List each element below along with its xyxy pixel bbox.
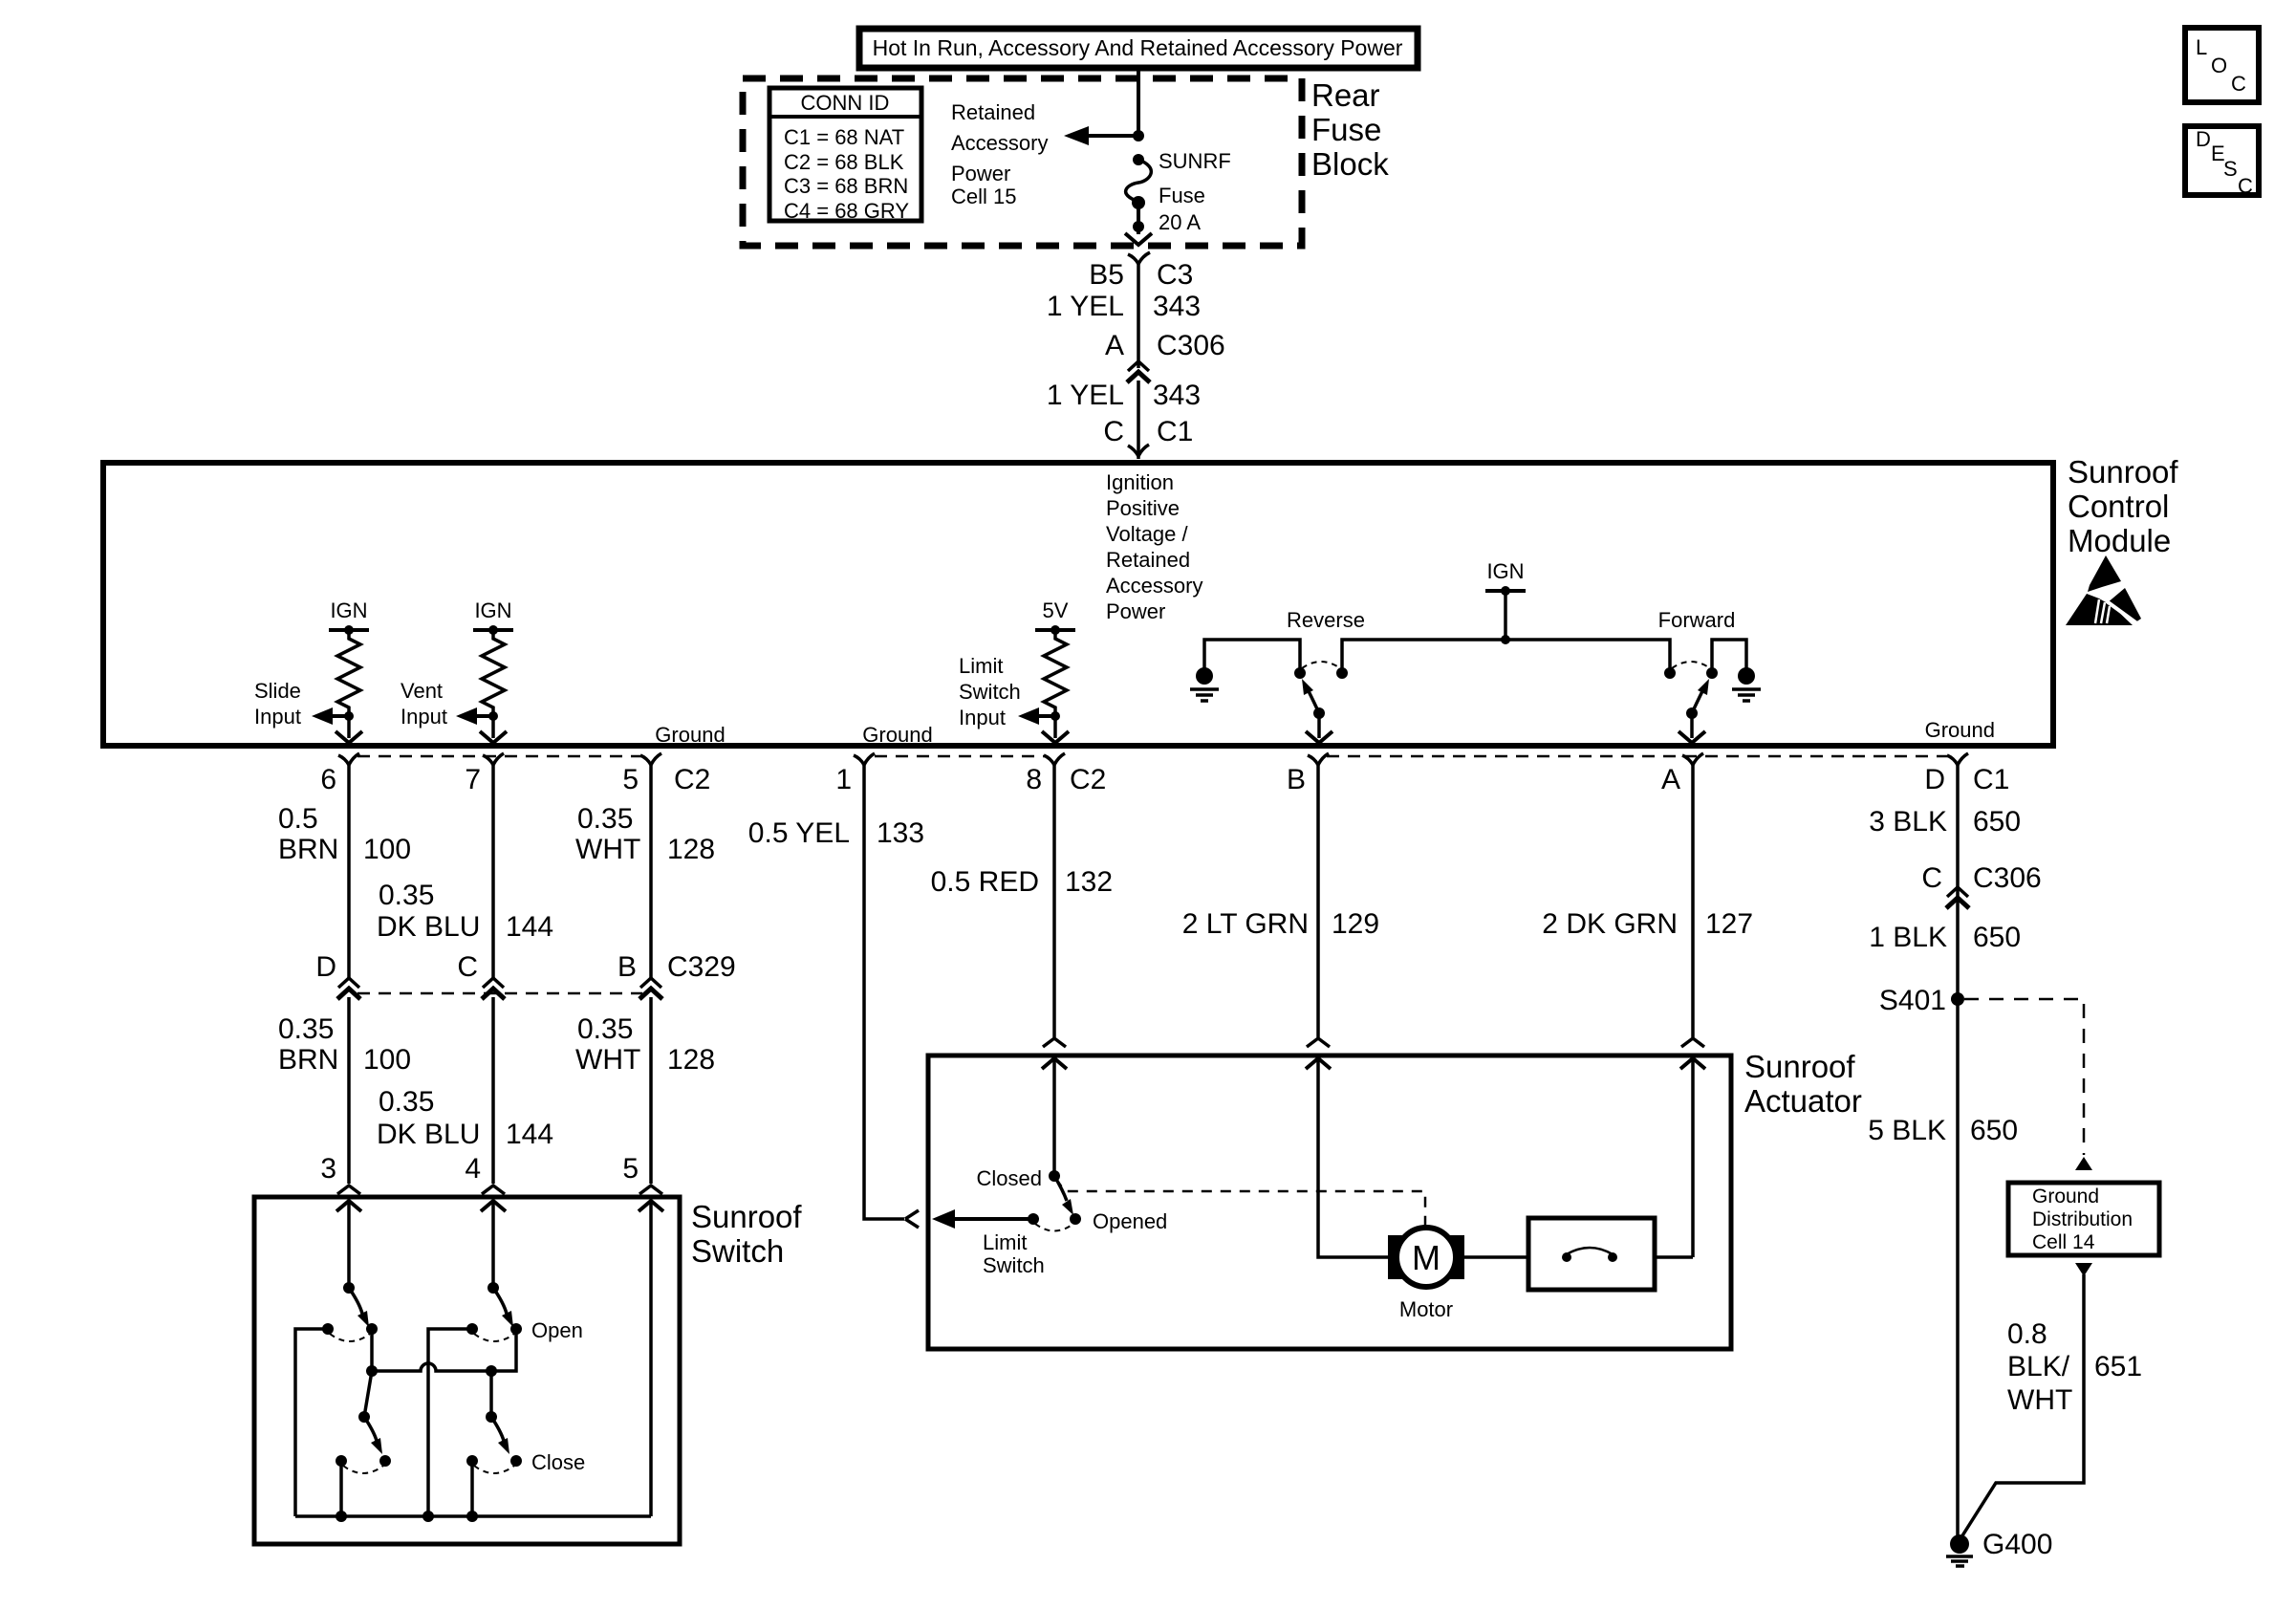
node limit switch input [1051, 711, 1060, 721]
relay bus wires [1204, 640, 1746, 669]
wire pinD down [1956, 765, 1960, 1540]
label C C1 [1103, 416, 1193, 447]
wire open-left contact down [428, 1329, 472, 1516]
pin 5 bracket [640, 753, 661, 765]
label 0.35 BRN 100 lower [278, 1013, 411, 1076]
wire motor to breaker [1464, 1255, 1528, 1259]
svg-text:C: C [1921, 862, 1942, 894]
wire slide to pin 6 [347, 716, 351, 738]
C329 row [315, 951, 735, 983]
svg-text:Ignition: Ignition [1106, 470, 1174, 494]
wire pin8 to actuator [1052, 765, 1056, 1037]
svg-text:129: 129 [1332, 908, 1379, 940]
svg-text:1 YEL: 1 YEL [1047, 380, 1124, 411]
svg-text:Retained: Retained [1106, 548, 1190, 572]
limit switch input label [959, 654, 1021, 729]
wire pinA to actuator [1691, 765, 1695, 1037]
svg-text:Positive: Positive [1106, 496, 1180, 520]
svg-text:132: 132 [1065, 866, 1113, 898]
limit switch wire [1052, 1058, 1056, 1176]
svg-text:Limit: Limit [983, 1230, 1027, 1254]
pin 1 bracket [854, 753, 875, 765]
wire bottom rail to pin5 [649, 1201, 653, 1516]
svg-text:C4 = 68 GRY: C4 = 68 GRY [784, 199, 909, 223]
arrow to retained accessory power [1064, 126, 1138, 145]
wire pinA inside [1691, 1058, 1695, 1257]
inline connector C306 right [1946, 887, 1969, 908]
inline connector C329 B [639, 978, 662, 999]
svg-text:Cell 15: Cell 15 [951, 185, 1016, 208]
ground right in module [1732, 667, 1761, 701]
svg-text:651: 651 [2094, 1351, 2142, 1382]
svg-text:Switch: Switch [959, 680, 1021, 704]
svg-text:C: C [1103, 416, 1124, 447]
inline connector C329 C [482, 978, 505, 999]
svg-text:C: C [2231, 72, 2246, 96]
svg-text:B5: B5 [1089, 259, 1124, 291]
label 0.35 WHT 128 [575, 803, 715, 865]
svg-text:0.5 RED: 0.5 RED [931, 866, 1039, 898]
wire C329 C to switch pin 4 [491, 997, 495, 1184]
svg-text:Opened: Opened [1093, 1209, 1167, 1233]
wire pin3 inside [347, 1201, 351, 1288]
label 1 YEL 343 lower [1047, 380, 1201, 411]
dashed connector line C2 mid [875, 755, 1046, 758]
svg-text:1 YEL: 1 YEL [1047, 291, 1124, 322]
svg-text:C: C [2238, 174, 2253, 198]
pinB entry arrow [1306, 1058, 1331, 1069]
dashed connector line C2 left [357, 755, 642, 758]
wire contact to left arrow [932, 1209, 1033, 1229]
5V supply [1035, 598, 1075, 635]
svg-text:L: L [2196, 35, 2207, 59]
reverse switch contacts [1294, 662, 1348, 679]
svg-text:IGN: IGN [474, 598, 511, 622]
svg-text:D: D [1924, 764, 1945, 795]
pin A bracket [1682, 753, 1703, 765]
svg-text:A: A [1105, 330, 1124, 361]
svg-text:Module: Module [2068, 523, 2171, 558]
pin 6 bracket [338, 753, 359, 765]
breaker box [1528, 1218, 1655, 1290]
svg-text:C1 = 68 NAT: C1 = 68 NAT [784, 125, 904, 149]
IGN supply 2 [473, 598, 513, 635]
svg-text:Switch: Switch [983, 1253, 1045, 1277]
svg-text:Closed: Closed [977, 1166, 1042, 1190]
svg-text:0.35: 0.35 [278, 1013, 334, 1045]
label 2 DK GRN 127 [1542, 908, 1753, 940]
svg-text:Sunroof: Sunroof [1744, 1049, 1855, 1084]
node vent input [488, 711, 498, 721]
pinB entry bracket [1307, 1038, 1330, 1047]
limit switch contacts [1028, 1213, 1081, 1231]
wire limit to pin 8 [1053, 716, 1057, 738]
svg-text:650: 650 [1970, 1115, 2018, 1146]
svg-text:Open: Open [531, 1318, 583, 1342]
label 2 LT GRN 129 [1182, 908, 1379, 940]
svg-text:SUNRF: SUNRF [1159, 149, 1231, 173]
ESD symbol [2066, 555, 2141, 625]
wire pin1 down to actuator [864, 765, 904, 1219]
svg-text:IGN: IGN [330, 598, 367, 622]
svg-text:Power: Power [1106, 599, 1165, 623]
svg-text:0.35: 0.35 [577, 803, 633, 835]
svg-text:WHT: WHT [575, 834, 640, 865]
slide input label [254, 679, 301, 729]
svg-text:Fuse: Fuse [1311, 112, 1381, 147]
forward switch arm [1679, 679, 1709, 743]
rear fuse block dashed box [743, 78, 1302, 246]
svg-text:0.35: 0.35 [577, 1013, 633, 1045]
pinA entry bracket [1681, 1038, 1704, 1047]
label 0.35 WHT 128 lower [575, 1013, 715, 1076]
svg-text:Accessory: Accessory [1106, 574, 1202, 598]
fuse label [1159, 149, 1231, 234]
svg-text:DK BLU: DK BLU [377, 1119, 480, 1150]
svg-text:650: 650 [1973, 806, 2021, 838]
node mid left [366, 1365, 378, 1377]
label 5 BLK 650 [1868, 1115, 2018, 1146]
pinA entry arrow [1680, 1058, 1705, 1069]
wire pin7 to C329 C [491, 765, 495, 979]
svg-text:2 LT GRN: 2 LT GRN [1182, 908, 1309, 940]
wire pinB to motor [1318, 1058, 1388, 1257]
svg-text:343: 343 [1153, 380, 1201, 411]
label 3 BLK 650 [1869, 806, 2021, 838]
vent input label [401, 679, 447, 729]
pin D bracket [1947, 753, 1968, 765]
svg-text:128: 128 [667, 834, 715, 865]
svg-text:A: A [1661, 764, 1680, 795]
wire ground distribution to G400 [1960, 1274, 2084, 1540]
inline connector C306 [1127, 361, 1150, 382]
pin8 entry bracket [1043, 1038, 1066, 1047]
ignition positive voltage label [1106, 470, 1202, 623]
svg-text:Limit: Limit [959, 654, 1003, 678]
svg-text:127: 127 [1705, 908, 1753, 940]
feed wire from hot box [1137, 68, 1140, 136]
dashed connector line C329 [357, 992, 642, 995]
svg-text:650: 650 [1973, 922, 2021, 953]
svg-text:M: M [1412, 1238, 1440, 1277]
limit switch input arrow [1018, 707, 1055, 725]
node bottom rail mid [422, 1511, 434, 1522]
power source label box [859, 29, 1418, 68]
svg-text:D: D [315, 951, 336, 983]
svg-text:Reverse: Reverse [1287, 608, 1365, 632]
svg-text:5: 5 [622, 1153, 639, 1185]
svg-text:S: S [2223, 157, 2238, 181]
svg-text:Sunroof: Sunroof [691, 1199, 802, 1234]
label 0.5 YEL 133 [748, 817, 924, 849]
wire right contact to mid rail [370, 1329, 374, 1371]
label 1 YEL 343 [1047, 291, 1201, 322]
pin 7 bracket [483, 753, 504, 765]
svg-text:C3 = 68 BRN: C3 = 68 BRN [784, 174, 908, 198]
svg-text:1: 1 [835, 764, 852, 795]
pin 8 bracket [1044, 753, 1065, 765]
svg-text:Cell 14: Cell 14 [2032, 1231, 2095, 1253]
svg-text:Block: Block [1311, 146, 1389, 182]
wire C329 D to switch pin 3 [347, 997, 351, 1184]
svg-text:Voltage /: Voltage / [1106, 522, 1189, 546]
rear fuse block label [1311, 77, 1389, 182]
wire mid node down to close-right pivot [489, 1371, 493, 1417]
svg-text:Fuse: Fuse [1159, 184, 1205, 207]
svg-text:B: B [1287, 764, 1306, 795]
svg-text:D: D [2196, 127, 2211, 151]
dashed branch to ground distribution [1964, 999, 2084, 1155]
LOC box [2185, 28, 2259, 102]
svg-text:Ground: Ground [2032, 1186, 2099, 1207]
node bottom rail left [336, 1511, 347, 1522]
label B5 C3 [1089, 259, 1193, 291]
inline connector C329 D [337, 978, 360, 999]
svg-text:C: C [457, 951, 478, 983]
svg-text:G400: G400 [1982, 1529, 2052, 1560]
wire breaker to pinA [1655, 1255, 1693, 1259]
svg-text:Power: Power [951, 162, 1010, 185]
limit switch arm [1049, 1170, 1073, 1215]
wire fuse to module [1137, 264, 1140, 368]
svg-text:Motor: Motor [1399, 1297, 1453, 1321]
svg-text:7: 7 [465, 764, 481, 795]
sunroof control module box [103, 463, 2053, 746]
label 1 BLK 650 [1869, 922, 2021, 953]
vent input arrow [456, 707, 493, 725]
svg-text:Rear: Rear [1311, 77, 1380, 113]
svg-text:5V: 5V [1043, 598, 1069, 622]
sunroof switch box [254, 1197, 680, 1544]
svg-text:Hot In Run, Accessory And Reta: Hot In Run, Accessory And Retained Acces… [873, 35, 1403, 60]
connector half on yel wire [905, 1210, 919, 1228]
svg-text:C306: C306 [1157, 330, 1225, 361]
pin 4 entry bracket [482, 1186, 505, 1194]
svg-text:100: 100 [363, 1044, 411, 1076]
connector bracket B5/C3 [1128, 252, 1150, 264]
label 0.5 BRN 100 [278, 803, 411, 865]
sunroof control module label [2068, 454, 2178, 558]
svg-text:C2: C2 [1070, 764, 1106, 795]
svg-text:C1: C1 [1973, 764, 2009, 795]
svg-text:CONN ID: CONN ID [801, 91, 890, 115]
open switch left arm [343, 1282, 369, 1327]
svg-text:0.8: 0.8 [2007, 1318, 2047, 1350]
svg-text:Control: Control [2068, 489, 2169, 524]
svg-text:Accessory: Accessory [951, 131, 1048, 155]
wire C329 B to switch pin 5 [649, 997, 653, 1184]
svg-text:Ground: Ground [1925, 718, 1995, 742]
svg-text:3: 3 [320, 1153, 336, 1185]
label 0.5 RED 132 [931, 866, 1113, 898]
svg-text:1 BLK: 1 BLK [1869, 922, 1947, 953]
svg-text:C2: C2 [674, 764, 710, 795]
arrow leaving fuse block [1125, 233, 1152, 245]
svg-text:Sunroof: Sunroof [2068, 454, 2178, 490]
connector bracket at module top [1128, 445, 1149, 456]
label 0.35 DK BLU 144 lower [377, 1086, 553, 1150]
resistor R slide [337, 630, 360, 716]
wire pin5 to C329 B [649, 765, 653, 979]
wire pinB to actuator [1316, 765, 1320, 1037]
svg-text:C329: C329 [667, 951, 736, 983]
label A C306 [1105, 330, 1225, 361]
ground left in module [1190, 667, 1219, 701]
svg-text:0.5 YEL: 0.5 YEL [748, 817, 850, 849]
svg-text:Ground: Ground [862, 723, 932, 747]
svg-text:S401: S401 [1879, 985, 1946, 1016]
pin 3 entry arrow [336, 1201, 361, 1211]
retained accessory power label [951, 100, 1048, 208]
resistor R vent [482, 630, 505, 716]
node IGN bus [1501, 635, 1510, 644]
label 0.35 DK BLU 144 [377, 880, 553, 943]
wire vent to pin 7 [491, 716, 495, 738]
pin 3 entry bracket [337, 1186, 360, 1194]
dashed connector line C1 right [1327, 755, 1949, 758]
arrow out of ground distribution [2075, 1263, 2092, 1276]
label 0.8 BLK/WHT 651 [2007, 1318, 2142, 1416]
svg-text:8: 8 [1026, 764, 1042, 795]
close switch right contacts [466, 1455, 522, 1473]
svg-text:Retained: Retained [951, 100, 1035, 124]
wire close-left contact to bottom [339, 1461, 343, 1516]
sunroof actuator box [928, 1055, 1731, 1349]
svg-text:O: O [2211, 54, 2227, 77]
svg-text:0.35: 0.35 [379, 880, 434, 911]
svg-text:Ground: Ground [655, 723, 725, 747]
svg-text:100: 100 [363, 834, 411, 865]
node slide input [344, 711, 354, 721]
pin 5 entry arrow [639, 1201, 663, 1211]
svg-text:5: 5 [622, 764, 639, 795]
pin B bracket [1308, 753, 1329, 765]
motor M [1388, 1228, 1464, 1321]
dashed link closed to motor [1055, 1178, 1425, 1227]
CONN ID table [769, 88, 921, 223]
node bottom rail right [466, 1511, 478, 1522]
open switch left contacts [322, 1323, 378, 1341]
svg-text:144: 144 [506, 1119, 553, 1150]
wire pin6 to C329 D [347, 765, 351, 979]
close switch left arm [358, 1411, 382, 1454]
svg-text:B: B [617, 951, 637, 983]
pin 5 entry bracket [639, 1186, 662, 1194]
svg-text:C3: C3 [1157, 259, 1193, 291]
DESC box [2185, 126, 2259, 198]
wire mid to close-left pivot [364, 1371, 372, 1417]
sunroof actuator label [1744, 1049, 1862, 1119]
svg-text:0.5: 0.5 [278, 803, 318, 835]
close switch right arm [486, 1411, 509, 1454]
pin 4 entry arrow [481, 1201, 506, 1211]
sunroof switch label [691, 1199, 802, 1269]
wire close-right left contact to bottom [470, 1461, 474, 1516]
reverse switch arm [1302, 679, 1332, 743]
node S401 [1951, 992, 1964, 1006]
svg-text:5 BLK: 5 BLK [1868, 1115, 1946, 1146]
svg-text:Forward: Forward [1658, 608, 1736, 632]
svg-text:Close: Close [531, 1450, 585, 1474]
fuse SUNRF 20A [1126, 154, 1152, 234]
svg-text:144: 144 [506, 911, 553, 943]
forward switch contacts [1664, 662, 1718, 679]
svg-text:C2 = 68 BLK: C2 = 68 BLK [784, 150, 904, 174]
svg-text:343: 343 [1153, 291, 1201, 322]
svg-text:3 BLK: 3 BLK [1869, 806, 1947, 838]
node: retained accessory power tap [1133, 130, 1144, 141]
svg-text:6: 6 [320, 764, 336, 795]
svg-text:BRN: BRN [278, 834, 338, 865]
svg-text:Actuator: Actuator [1744, 1083, 1862, 1119]
open switch right contacts [466, 1323, 522, 1341]
svg-text:Switch: Switch [691, 1233, 784, 1269]
node mid right [486, 1365, 497, 1377]
arrow into ground distribution [2075, 1157, 2092, 1170]
mid rail with hop [372, 1329, 516, 1371]
IGN supply 1 [329, 598, 369, 635]
svg-text:Vent: Vent [401, 679, 443, 703]
open switch right arm [487, 1282, 513, 1327]
close switch left contacts [336, 1455, 391, 1473]
svg-text:BRN: BRN [278, 1044, 338, 1076]
svg-text:Input: Input [254, 705, 301, 729]
IGN relay supply [1485, 559, 1526, 640]
wire pin4 inside [491, 1201, 495, 1288]
svg-text:Input: Input [401, 705, 447, 729]
limit switch label [983, 1230, 1045, 1277]
svg-text:4: 4 [465, 1153, 481, 1185]
svg-text:IGN: IGN [1486, 559, 1524, 583]
svg-text:0.35: 0.35 [379, 1086, 434, 1118]
pin8 entry arrow [1042, 1058, 1067, 1069]
svg-text:133: 133 [877, 817, 924, 849]
ground distribution box [2008, 1183, 2159, 1255]
bottom rail [295, 1514, 651, 1518]
svg-text:BLK/: BLK/ [2007, 1351, 2070, 1382]
resistor R limit [1044, 630, 1067, 716]
svg-text:128: 128 [667, 1044, 715, 1076]
slide input arrow [312, 707, 349, 725]
label C C306 right [1921, 862, 2041, 894]
svg-text:C1: C1 [1157, 416, 1193, 447]
svg-text:20 A: 20 A [1159, 210, 1201, 234]
svg-text:C306: C306 [1973, 862, 2042, 894]
svg-text:2 DK GRN: 2 DK GRN [1542, 908, 1678, 940]
wire C306 to module [1137, 381, 1140, 459]
svg-text:Input: Input [959, 706, 1006, 729]
svg-text:WHT: WHT [2007, 1384, 2072, 1416]
switch pin labels 3 4 5 [320, 1153, 639, 1185]
svg-text:WHT: WHT [575, 1044, 640, 1076]
svg-text:Slide: Slide [254, 679, 301, 703]
wire left contact to bottom rail [295, 1329, 328, 1516]
svg-text:DK BLU: DK BLU [377, 911, 480, 943]
svg-text:Distribution: Distribution [2032, 1208, 2133, 1230]
ground G400 [1946, 1529, 2052, 1566]
